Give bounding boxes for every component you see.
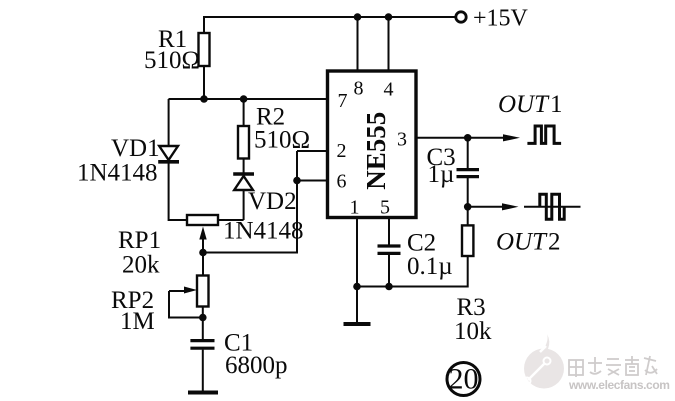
svg-text:8: 8: [354, 78, 364, 100]
svg-text:www.elecfans.com: www.elecfans.com: [568, 378, 670, 392]
node junction C3 top: [464, 134, 472, 142]
svg-text:1N4148: 1N4148: [223, 218, 304, 245]
RP2 wiper arrow: [169, 287, 203, 318]
ground main: [344, 322, 371, 326]
wire pin 5 stub down: [388, 217, 390, 245]
svg-text:1µ: 1µ: [428, 161, 455, 188]
svg-text:VD2: VD2: [248, 188, 297, 215]
svg-text:510Ω: 510Ω: [144, 47, 200, 74]
capacitor C3: [457, 138, 480, 207]
waveform OUT2: [540, 194, 564, 219]
node junction rail pin8: [354, 13, 362, 21]
wire RP2 top lead: [202, 253, 204, 276]
wire node row to pin 7: [169, 98, 328, 100]
arrow OUT2: [468, 203, 519, 210]
svg-text:0.1µ: 0.1µ: [407, 253, 453, 280]
svg-text:1: 1: [350, 197, 360, 219]
svg-text:OUT1: OUT1: [498, 91, 563, 118]
op-amp U1 NE555 box: [328, 71, 417, 218]
resistor R3: [462, 225, 473, 256]
svg-text:6800p: 6800p: [225, 352, 288, 379]
node junction pin1 ground: [353, 283, 361, 291]
svg-text:RP1: RP1: [118, 227, 161, 254]
wire pin 6 stub: [297, 180, 327, 182]
arrow OUT1: [503, 134, 520, 141]
wire R2 top lead: [243, 99, 245, 126]
node junction wiper: [199, 249, 207, 257]
figure number 20: [447, 363, 480, 396]
wire C1 bottom lead: [202, 350, 204, 392]
wire pin 4 supply stub: [388, 17, 390, 71]
svg-text:NE555: NE555: [361, 112, 391, 190]
potentiometer RP1 body: [187, 215, 218, 225]
node junction R2: [240, 95, 248, 103]
wire VD1 anode lead: [168, 99, 170, 146]
svg-text:1M: 1M: [120, 308, 155, 335]
wire ground stem: [356, 287, 358, 324]
wire R3 top lead: [467, 207, 469, 226]
svg-text:VD1: VD1: [111, 135, 160, 162]
capacitor C2: [378, 246, 401, 287]
wire VD2 anode lead: [243, 190, 245, 220]
svg-text:510Ω: 510Ω: [254, 127, 310, 154]
capacitor C1: [190, 341, 214, 349]
watermark CJK text: [569, 356, 657, 377]
svg-text:1N4148: 1N4148: [77, 160, 158, 187]
node junction C3 bottom: [464, 203, 472, 211]
wire R1 bottom lead: [203, 66, 205, 99]
diode VD2: [233, 174, 254, 190]
svg-text:R3: R3: [457, 294, 486, 321]
watermark logo: [524, 334, 565, 389]
svg-text:20k: 20k: [122, 252, 160, 279]
wire RP1 right lead: [218, 219, 244, 221]
ground C1: [188, 391, 218, 395]
wire pin 1 stub down: [356, 217, 358, 287]
svg-text:20: 20: [449, 363, 479, 396]
wire pin 3 output: [415, 137, 504, 139]
wire pin 8 supply stub: [357, 17, 359, 71]
svg-text:6: 6: [337, 171, 347, 193]
node junction C2 ground: [385, 283, 393, 291]
svg-text:5: 5: [380, 197, 390, 219]
svg-text:2: 2: [337, 140, 347, 162]
wire VD1 cathode to RP1 left: [169, 163, 187, 220]
svg-text:+15V: +15V: [473, 6, 529, 32]
svg-text:OUT2: OUT2: [496, 229, 561, 256]
svg-text:7: 7: [338, 90, 348, 112]
svg-text:10k: 10k: [454, 318, 492, 345]
potentiometer RP2 body: [197, 276, 209, 307]
node junction rail pin4: [385, 13, 393, 21]
resistor R1: [199, 33, 210, 66]
wire VD2 cathode to R2: [243, 159, 245, 174]
wire R1 top lead: [203, 16, 205, 33]
svg-text:3: 3: [397, 129, 407, 151]
diode VD1: [158, 146, 179, 162]
RP1 wiper arrow: [199, 227, 206, 253]
waveform OUT2 axis: [524, 206, 581, 208]
wire pin 2 stub: [297, 150, 327, 152]
wire RP2 bottom lead: [202, 307, 204, 340]
terminal +15V: [456, 12, 466, 22]
resistor R2: [238, 126, 249, 159]
wire wiper to pins 2 and 6: [203, 151, 297, 253]
svg-text:4: 4: [384, 79, 394, 101]
wire R3 bottom to ground row: [357, 256, 468, 287]
waveform OUT1: [527, 126, 561, 143]
node junction RP2 bottom: [199, 314, 207, 322]
node junction R1: [200, 95, 208, 103]
wire top supply rail: [204, 16, 456, 18]
node junction pin 6: [293, 177, 301, 185]
